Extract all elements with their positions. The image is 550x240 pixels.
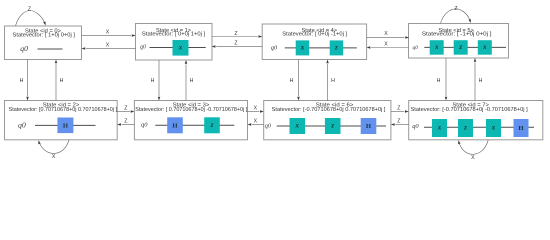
svg-text:X: X	[254, 118, 258, 124]
svg-text:H: H	[151, 78, 155, 84]
edge S6->S7 (Z) wire	[391, 110, 404, 112]
svg-text:q0: q0	[140, 45, 146, 51]
edge S0->S1 (X) wire	[82, 34, 132, 36]
svg-text:H: H	[518, 125, 524, 132]
svg-text:Z: Z	[397, 118, 400, 124]
svg-text:Statevector: [-0.70710678+0j: Statevector: [-0.70710678+0j -0.70710678…	[411, 107, 529, 113]
S7 wire	[424, 126, 534, 128]
svg-text:X: X	[106, 30, 110, 36]
svg-text:Statevector: [ 1+0j 0+0j ]: Statevector: [ 1+0j 0+0j ]	[13, 33, 76, 39]
S5 gate X (2nd)	[478, 40, 492, 55]
S5 wire	[424, 46, 506, 48]
svg-text:X: X	[106, 42, 110, 48]
S7 gate X (1st)	[432, 119, 447, 137]
svg-text:Z: Z	[234, 31, 237, 37]
state box S1	[136, 24, 213, 61]
edge S7->S6 (Z) wire	[395, 123, 408, 125]
S6 gate X	[290, 118, 306, 134]
svg-text:X: X	[471, 155, 475, 161]
edge S5->S4 (X) wire	[371, 47, 408, 49]
edge S1->S0 (X) wire	[86, 47, 136, 49]
svg-text:q0: q0	[265, 123, 271, 129]
self loop S7 (X) arc	[460, 140, 489, 154]
svg-text:H: H	[366, 123, 372, 130]
self loop S0 (Z) arc	[16, 11, 45, 26]
svg-text:z: z	[334, 44, 338, 52]
S5 gate X (1st)	[430, 40, 444, 55]
svg-text:Statevector: [-0.70710678+0j: Statevector: [-0.70710678+0j 0.70710678+…	[272, 107, 386, 113]
svg-text:q0: q0	[18, 121, 26, 130]
edge S7->S5 (H) wire up	[474, 63, 476, 101]
S7 gate X (2nd)	[486, 119, 501, 137]
svg-text:q0: q0	[141, 122, 148, 129]
S5 gate Z	[454, 40, 468, 55]
svg-text:X: X	[52, 154, 56, 160]
svg-text:Statevector: [0.70710678+0j 0: Statevector: [0.70710678+0j 0.70710678+0…	[9, 107, 118, 113]
svg-text:Statevector: [ -1+0j 0+0j ]: Statevector: [ -1+0j 0+0j ]	[422, 32, 492, 38]
S3 gate Z	[204, 117, 220, 133]
S6 gate Z	[325, 118, 341, 134]
edge S5->S7 (H) wire down	[445, 58, 447, 96]
svg-text:x: x	[300, 44, 305, 52]
edge S1->S4 (Z) wire	[212, 36, 258, 38]
S1 gate X	[173, 40, 189, 56]
edge S4->S1 (Z) wire	[216, 45, 262, 47]
svg-text:q0: q0	[20, 44, 28, 53]
edge S6->S4 (H) wire up	[327, 64, 329, 101]
svg-text:H: H	[172, 122, 178, 129]
svg-text:Z: Z	[397, 105, 400, 111]
S2 gate H	[57, 118, 73, 134]
svg-text:H: H	[479, 78, 483, 84]
state box S0	[5, 26, 82, 60]
S4 wire	[285, 47, 357, 49]
svg-text:x: x	[491, 124, 496, 132]
S4 gate X	[296, 40, 310, 55]
edge S1->S3 (H) wire down	[158, 60, 160, 96]
edge S2->S0 (H) wire up	[55, 64, 57, 101]
S6 gate H	[361, 118, 377, 134]
S4 gate Z	[330, 40, 344, 55]
svg-text:H: H	[331, 78, 335, 84]
edge S3->S1 (H) wire up	[185, 65, 187, 101]
S7 gate H	[514, 119, 529, 137]
svg-text:q0: q0	[271, 45, 278, 52]
svg-text:X: X	[384, 31, 388, 37]
S2 wire	[35, 124, 96, 126]
state box S6	[264, 101, 391, 140]
S7 gate Z	[458, 119, 473, 137]
edge S0->S2 (H) wire down	[27, 60, 29, 97]
svg-text:z: z	[463, 124, 467, 132]
svg-text:Statevector: [ 0+0j -1+0j ]: Statevector: [ 0+0j -1+0j ]	[282, 32, 347, 38]
svg-text:z: z	[330, 122, 334, 130]
svg-text:H: H	[437, 78, 441, 84]
svg-text:z: z	[458, 43, 462, 51]
svg-text:Z: Z	[124, 118, 127, 124]
svg-text:x: x	[482, 43, 487, 51]
state box S4	[262, 24, 366, 60]
svg-text:q0: q0	[412, 123, 419, 130]
svg-text:Z: Z	[234, 41, 237, 47]
svg-text:H: H	[60, 78, 64, 84]
svg-text:X: X	[384, 41, 388, 47]
svg-text:Statevector: [ 0.70710678+0j: Statevector: [ 0.70710678+0j -0.70710678…	[135, 107, 248, 113]
state box S5	[409, 24, 509, 59]
S3 gate H	[167, 117, 183, 133]
edge S2->S3 (Z) wire	[117, 110, 130, 112]
S0 wire	[38, 48, 63, 50]
svg-text:Z: Z	[454, 6, 457, 12]
state box S2	[5, 101, 118, 140]
svg-text:x: x	[434, 43, 439, 51]
svg-text:x: x	[295, 122, 300, 130]
S1 wire	[150, 47, 206, 49]
state box S3	[134, 101, 247, 140]
svg-text:z: z	[210, 121, 214, 129]
svg-text:Z: Z	[124, 105, 127, 111]
self loop S5 (Z) arc	[441, 9, 470, 23]
edge S3->S2 (Z) wire	[122, 123, 135, 125]
edge S6->S3 (X) wire	[252, 123, 264, 125]
S3 wire	[155, 124, 234, 126]
svg-text:q0: q0	[413, 45, 419, 51]
edge S4->S5 (X) wire	[367, 36, 405, 38]
svg-text:Z: Z	[28, 6, 31, 12]
svg-text:H: H	[63, 122, 69, 129]
S6 wire	[277, 125, 386, 127]
self loop S2 (X) arc	[40, 140, 69, 153]
svg-text:H: H	[20, 78, 24, 84]
edge S3->S6 (X) wire	[248, 110, 260, 112]
state box S7	[409, 101, 543, 140]
svg-text:H: H	[190, 78, 194, 84]
svg-text:Statevector: [ 0+0j 1+0j ]: Statevector: [ 0+0j 1+0j ]	[142, 32, 206, 38]
svg-text:X: X	[254, 105, 258, 111]
svg-text:x: x	[178, 44, 183, 52]
edge S4->S6 (H) wire down	[298, 60, 300, 97]
svg-text:x: x	[437, 124, 442, 132]
svg-text:H: H	[290, 78, 294, 84]
